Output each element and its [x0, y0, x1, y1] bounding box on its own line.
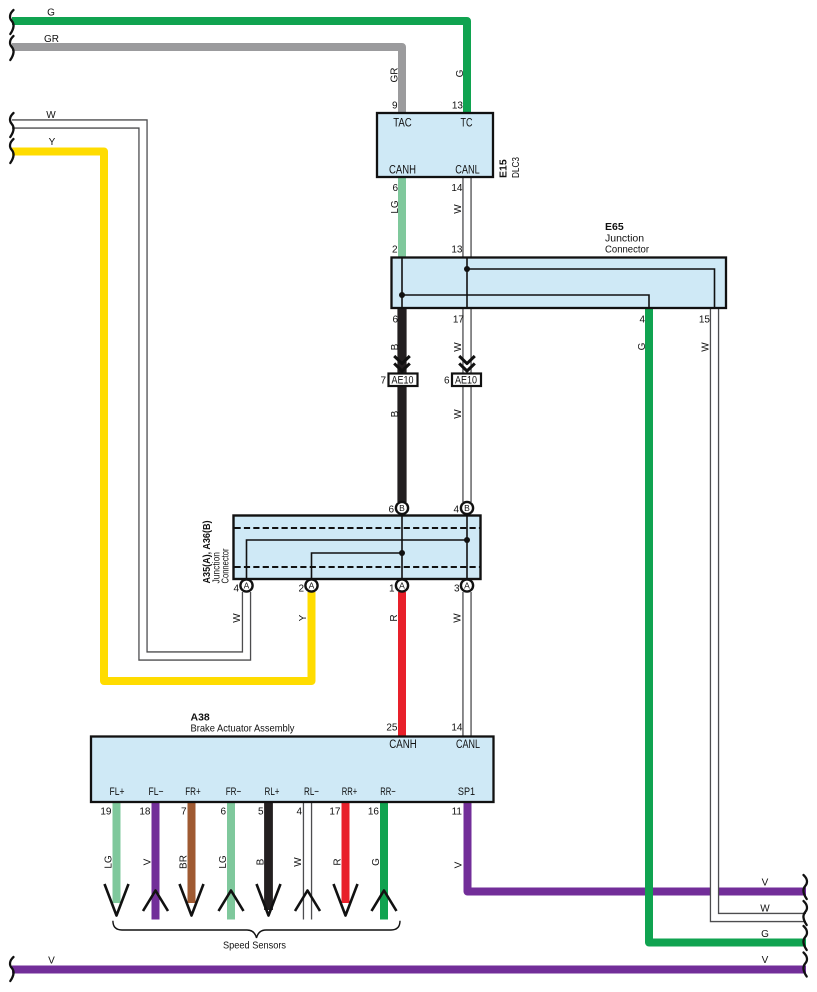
svg-text:W: W — [46, 110, 56, 121]
svg-text:CANH: CANH — [389, 164, 416, 176]
svg-text:RL−: RL− — [304, 786, 319, 798]
svg-text:Brake Actuator Assembly: Brake Actuator Assembly — [191, 723, 296, 735]
svg-text:14: 14 — [451, 183, 463, 194]
svg-text:9: 9 — [392, 101, 398, 112]
svg-text:7: 7 — [380, 376, 386, 387]
svg-text:A: A — [399, 581, 405, 591]
svg-text:G: G — [455, 69, 466, 77]
svg-text:17: 17 — [329, 807, 341, 818]
svg-text:G: G — [761, 929, 769, 940]
svg-text:G: G — [371, 858, 382, 866]
svg-text:CANH: CANH — [389, 739, 417, 751]
svg-text:Connector: Connector — [605, 244, 649, 256]
svg-text:2: 2 — [298, 584, 304, 595]
svg-text:B: B — [464, 503, 470, 513]
svg-text:6: 6 — [388, 505, 394, 516]
svg-text:LG: LG — [104, 855, 115, 869]
svg-text:W: W — [453, 342, 464, 352]
svg-text:W: W — [453, 613, 464, 623]
svg-text:3: 3 — [454, 584, 460, 595]
svg-text:V: V — [143, 858, 154, 865]
svg-text:17: 17 — [453, 315, 465, 326]
svg-text:R: R — [389, 614, 400, 621]
svg-text:13: 13 — [451, 245, 463, 256]
svg-text:Y: Y — [298, 614, 309, 621]
svg-text:6: 6 — [392, 315, 398, 326]
svg-text:GR: GR — [390, 68, 401, 83]
svg-text:14: 14 — [451, 723, 463, 734]
svg-text:6: 6 — [220, 807, 226, 818]
svg-text:Y: Y — [49, 137, 56, 148]
svg-text:W: W — [232, 613, 243, 623]
svg-text:4: 4 — [296, 807, 302, 818]
svg-text:G: G — [47, 8, 55, 19]
svg-text:W: W — [453, 409, 464, 419]
svg-text:19: 19 — [100, 807, 112, 818]
svg-text:11: 11 — [452, 807, 463, 818]
svg-text:A: A — [464, 581, 470, 591]
svg-text:Speed Sensors: Speed Sensors — [223, 941, 286, 952]
svg-text:18: 18 — [139, 807, 151, 818]
svg-text:FR+: FR+ — [185, 786, 201, 798]
svg-text:SP1: SP1 — [458, 786, 475, 798]
svg-text:Connector: Connector — [221, 548, 232, 584]
svg-text:5: 5 — [258, 807, 264, 818]
svg-text:W: W — [293, 857, 304, 867]
svg-text:6: 6 — [392, 183, 398, 194]
svg-text:V: V — [454, 861, 465, 868]
svg-text:6: 6 — [444, 376, 450, 387]
svg-text:G: G — [637, 342, 648, 350]
svg-text:FR−: FR− — [226, 786, 242, 798]
svg-text:LG: LG — [218, 855, 229, 869]
svg-text:FL−: FL− — [149, 786, 164, 798]
svg-text:E15: E15 — [498, 159, 510, 178]
svg-text:R: R — [333, 858, 344, 865]
svg-text:GR: GR — [44, 34, 59, 45]
svg-text:TAC: TAC — [393, 117, 412, 129]
svg-text:RR+: RR+ — [342, 786, 358, 798]
svg-text:AE10: AE10 — [392, 374, 414, 386]
svg-text:AE10: AE10 — [455, 374, 477, 386]
svg-text:RL+: RL+ — [265, 786, 280, 798]
svg-text:CANL: CANL — [456, 739, 480, 751]
svg-text:TC: TC — [461, 117, 473, 129]
svg-text:B: B — [390, 343, 401, 350]
svg-text:RR−: RR− — [380, 786, 396, 798]
svg-text:25: 25 — [386, 723, 398, 734]
svg-text:16: 16 — [368, 807, 380, 818]
svg-text:BR: BR — [179, 855, 190, 869]
svg-text:4: 4 — [233, 584, 239, 595]
svg-text:13: 13 — [452, 101, 464, 112]
svg-text:DLC3: DLC3 — [510, 157, 522, 178]
svg-text:V: V — [48, 956, 55, 967]
svg-text:7: 7 — [181, 807, 187, 818]
svg-text:B: B — [399, 503, 405, 513]
svg-text:CANL: CANL — [455, 164, 480, 176]
svg-text:FL+: FL+ — [110, 786, 125, 798]
svg-text:15: 15 — [699, 315, 711, 326]
svg-text:W: W — [701, 342, 712, 352]
svg-text:W: W — [453, 204, 464, 214]
svg-text:W: W — [760, 904, 770, 915]
svg-text:LG: LG — [390, 200, 401, 214]
svg-text:A: A — [309, 581, 315, 591]
svg-text:4: 4 — [639, 315, 645, 326]
svg-text:4: 4 — [453, 505, 459, 516]
svg-text:B: B — [390, 410, 401, 417]
svg-text:A: A — [244, 581, 250, 591]
svg-text:E65: E65 — [605, 221, 624, 233]
svg-text:V: V — [762, 878, 769, 889]
svg-text:2: 2 — [392, 245, 398, 256]
svg-text:B: B — [256, 858, 267, 865]
svg-text:V: V — [762, 955, 769, 966]
svg-text:1: 1 — [389, 584, 395, 595]
